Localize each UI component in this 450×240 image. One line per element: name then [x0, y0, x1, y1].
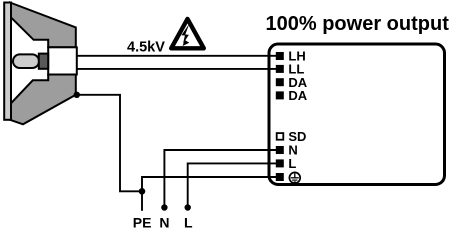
node: L supply dot — [185, 204, 191, 210]
svg-text:DA: DA — [288, 88, 307, 103]
svg-text:PE: PE — [133, 215, 152, 229]
node: N supply dot — [161, 204, 167, 210]
wire N supply to terminal N — [164, 150, 277, 208]
wire PE stub to label — [141, 191, 143, 211]
wire lamp to terminal LH — [77, 55, 277, 57]
wire PE junction to earth terminal — [142, 177, 277, 191]
terminal N — [276, 146, 284, 154]
terminal LL — [276, 65, 284, 73]
node: lamp housing PE junction — [74, 92, 80, 98]
lamp LA1 (discharge reflector lamp) — [4, 3, 77, 125]
terminal L — [276, 159, 284, 167]
wire lamp to terminal LL — [77, 68, 277, 70]
svg-text:SD: SD — [288, 129, 306, 144]
svg-text:N: N — [159, 215, 169, 229]
svg-text:4.5kV: 4.5kV — [127, 40, 165, 56]
terminal DA2 — [276, 91, 284, 99]
terminal LH — [276, 52, 284, 60]
terminal PE earth — [276, 173, 284, 181]
ballast U1 (electronic control gear box) — [269, 44, 445, 185]
svg-text:L: L — [288, 156, 296, 171]
earth symbol (protective earth) — [289, 172, 300, 183]
wire PE from lamp housing (down-run) — [77, 95, 142, 192]
terminal SD (open) — [277, 133, 284, 140]
svg-text:L: L — [184, 215, 193, 229]
svg-text:100% power output: 100% power output — [266, 13, 450, 35]
wire L supply to terminal L — [188, 163, 277, 207]
terminal DA1 — [276, 78, 284, 86]
high voltage warning triangle W1 — [171, 19, 204, 48]
node: PE junction dot — [139, 188, 146, 195]
